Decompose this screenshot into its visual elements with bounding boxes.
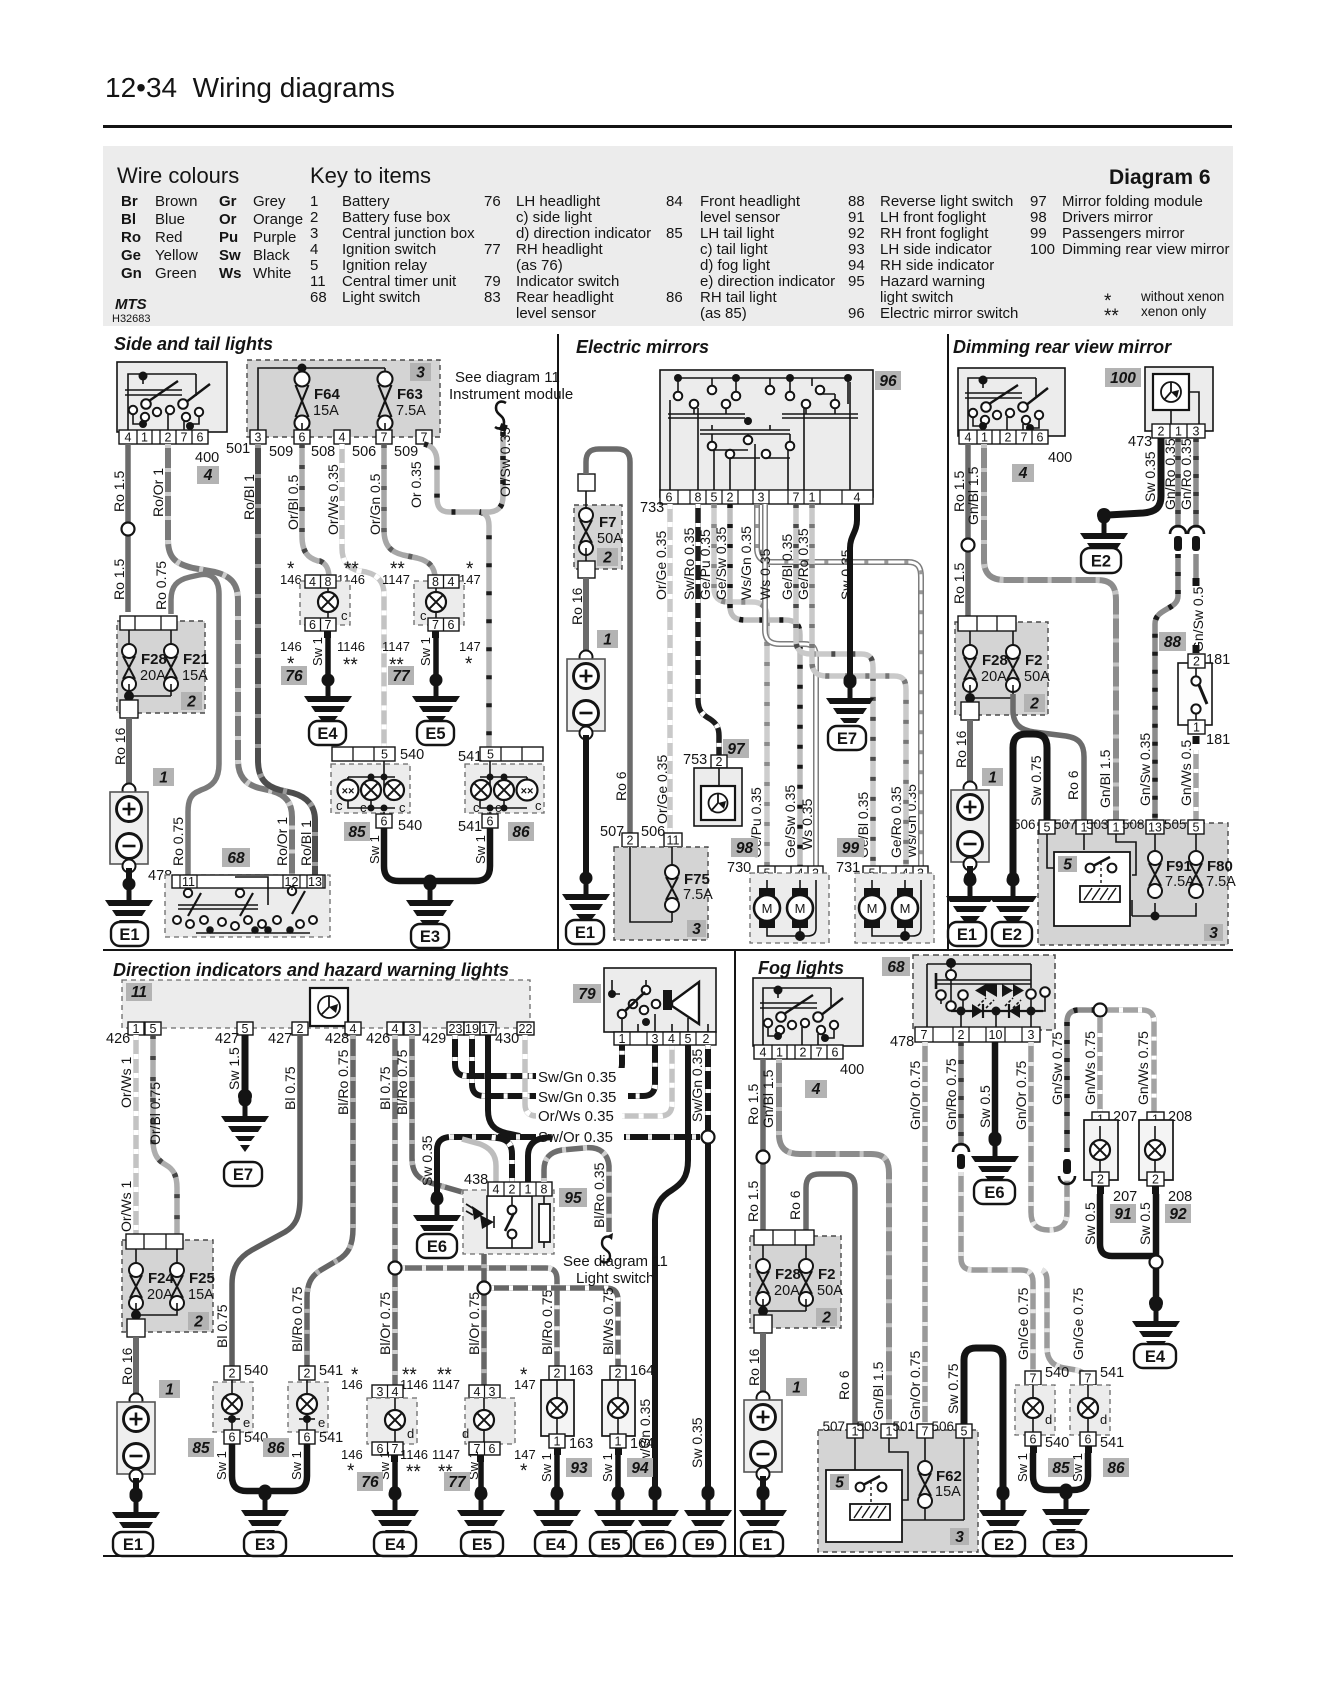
wire Sw/Gn 0.35 indicator pin 5 to ground E6 (655, 1045, 688, 1490)
svg-text:F2: F2 (818, 1266, 836, 1283)
wire Ge/Pu 0.35 switch pin 5 to mirror 98 pin 5 (714, 504, 767, 866)
svg-text:2: 2 (800, 1046, 807, 1060)
svg-text:Fog lights: Fog lights (758, 958, 844, 978)
svg-text:11: 11 (667, 834, 680, 848)
ignition switch 4 connector row (fog) (754, 1045, 843, 1060)
ground symbol E5 (94) (594, 1488, 642, 1547)
svg-text:Ro 6: Ro 6 (1065, 770, 1081, 800)
svg-text:Gn/Bl 1.5: Gn/Bl 1.5 (870, 1361, 886, 1420)
svg-text:E2: E2 (994, 1536, 1014, 1554)
svg-text:Key to items: Key to items (310, 163, 431, 188)
wire Gn/Ws 0.5 reverse switch to relay pin 5 (1193, 736, 1200, 744)
svg-text:100: 100 (1110, 370, 1136, 387)
svg-text:Purple: Purple (253, 229, 296, 246)
rear fog lamp 86d pin 6 (1080, 1432, 1096, 1446)
lamp 77 (side light c) (435, 588, 437, 618)
wire Bl/Ro 0.75 timer pin 4 to lamp 86e (307, 1035, 353, 1366)
wire Or/Bl 0.75 timer pin 5 to fuse box (153, 1035, 177, 1236)
fuse F64 15A (295, 372, 310, 431)
lamp 77 lower terminal stub (432, 631, 439, 638)
light switch 68 box (165, 875, 330, 937)
svg-text:F62: F62 (936, 1468, 962, 1485)
inline connector on pin 2 wire (953, 1144, 969, 1169)
rear fog lamp 86d box (1070, 1385, 1110, 1435)
svg-text:e) direction indicator: e) direction indicator (700, 273, 835, 290)
wire Ro 16 (dimming) (967, 720, 973, 786)
svg-text:Bl 0.75: Bl 0.75 (377, 1066, 393, 1110)
wire Gn/Ws 0.75 junction to foglamp 91 (1097, 1014, 1103, 1114)
svg-text:15A: 15A (182, 668, 208, 684)
ground symbol E6 (fog) (971, 1134, 1019, 1193)
svg-text:3: 3 (955, 1529, 964, 1546)
wire battery to ground (583, 735, 589, 878)
battery fuse box 2 (fog) (750, 1230, 841, 1328)
svg-text:Sw 0.75: Sw 0.75 (1028, 755, 1044, 806)
svg-text:76: 76 (285, 668, 303, 685)
wire Ro 16 (dir. ind.) (133, 1337, 139, 1398)
svg-text:Or/Bl 0.5: Or/Bl 0.5 (285, 475, 301, 530)
side indicator 94 connector 2 (610, 1366, 626, 1380)
svg-text:Passengers mirror: Passengers mirror (1062, 225, 1185, 242)
wire Bl/Ws 0.75 branch junction to side indicator 94 (484, 1288, 618, 1366)
svg-text:426: 426 (366, 1031, 390, 1047)
svg-text:7: 7 (793, 491, 800, 505)
fuse F7 50A (579, 508, 593, 555)
svg-text:100: 100 (1030, 241, 1055, 258)
svg-text:5: 5 (1044, 821, 1051, 835)
svg-text:E7: E7 (233, 1166, 253, 1184)
svg-text:Gn/Ro 0.35: Gn/Ro 0.35 (1178, 438, 1194, 510)
svg-text:88: 88 (848, 193, 865, 210)
svg-text:Bl: Bl (121, 211, 136, 228)
ground symbol E4 (foglights) (1132, 1299, 1180, 1358)
inline connector on foglamp feed (1059, 1159, 1075, 1184)
tail light 85 pin 6 (376, 814, 392, 828)
battery 1 (side/tail) (110, 784, 148, 873)
svg-text:1: 1 (165, 1382, 174, 1399)
svg-text:Sw: Sw (219, 247, 241, 264)
svg-text:Ge/Sw 0.35: Ge/Sw 0.35 (713, 527, 729, 600)
ground symbol E4 (76d) (371, 1488, 419, 1547)
svg-text:429: 429 (422, 1031, 446, 1047)
headlight 76d box (367, 1398, 417, 1444)
svg-text:6: 6 (381, 815, 388, 829)
badge 100 (1105, 368, 1141, 387)
svg-text:5: 5 (150, 1022, 157, 1036)
battery fuse box 2 (side/tail) (117, 616, 205, 713)
svg-text:E1: E1 (119, 926, 139, 944)
junction connector on 77d wire (478, 1282, 491, 1295)
tail light 86 connector row (480, 747, 543, 761)
svg-text:6: 6 (197, 431, 204, 445)
svg-text:Ge/Bl 0.35: Ge/Bl 0.35 (779, 534, 795, 600)
fog switch 68 connector row 7 2 10 3 (915, 1027, 1040, 1042)
svg-text:M: M (867, 901, 878, 916)
hazard switch contact (511, 1196, 513, 1248)
svg-text:86: 86 (1107, 1460, 1125, 1477)
svg-text:1146: 1146 (400, 1377, 428, 1392)
svg-text:97: 97 (727, 741, 746, 758)
svg-text:7: 7 (432, 618, 439, 632)
wire Gn/Ws 0.75 header to foglamp 92 (1100, 1010, 1154, 1114)
side indicator 94 pin 1 (610, 1434, 626, 1448)
badge 92 (1165, 1204, 1191, 1223)
mirror 98 motor wiring (767, 880, 816, 936)
badge 94 (627, 1458, 653, 1477)
svg-text:E2: E2 (1002, 926, 1022, 944)
svg-text:d: d (407, 1426, 414, 1441)
header rule (103, 125, 1232, 128)
svg-text:RH headlight: RH headlight (516, 241, 604, 258)
ground symbol E1 (dimming) (946, 874, 994, 933)
svg-text:E6: E6 (984, 1184, 1004, 1202)
section divider vertical between electric mirrors and dimming mirror (947, 334, 949, 950)
svg-text:e: e (318, 1415, 325, 1430)
legend: colour abbreviation table (121, 193, 303, 282)
headlight 77 connector 7 6 (428, 618, 459, 631)
svg-text:98: 98 (736, 840, 754, 857)
ground label E1 (566, 920, 604, 944)
svg-text:Ro 16: Ro 16 (953, 730, 969, 768)
svg-text:*: * (465, 654, 473, 675)
svg-text:7.5A: 7.5A (683, 887, 713, 903)
svg-text:See diagram 11: See diagram 11 (563, 1253, 668, 1270)
svg-text:light switch: light switch (880, 289, 953, 306)
fuse box 2 (F7) upper terminal (578, 474, 595, 491)
svg-text:c: c (473, 800, 480, 815)
svg-text:147: 147 (459, 639, 481, 654)
svg-text:2: 2 (554, 1367, 561, 1381)
wire Or/Sw 0.35 from instrument module (480, 432, 503, 512)
svg-text:76: 76 (361, 1474, 379, 1491)
lamp 86e (direction indicator e) (297, 1394, 317, 1414)
svg-text:94: 94 (631, 1460, 649, 1477)
svg-text:Gn/Or 0.75: Gn/Or 0.75 (1013, 1061, 1029, 1130)
junction connector foglamp header (1094, 1004, 1107, 1017)
svg-text:d: d (1100, 1412, 1107, 1427)
svg-text:12•34 Wiring diagrams: 12•34 Wiring diagrams (105, 72, 395, 103)
wire Sw 1 lamp 85d to ground E3 (1033, 1453, 1066, 1490)
svg-text:507: 507 (822, 1419, 845, 1434)
svg-text:Sw 0.75: Sw 0.75 (945, 1363, 961, 1414)
badge 98 (731, 838, 758, 857)
wire Sw 0.5 foglight 92 to ground E4 (1153, 1194, 1160, 1300)
svg-text:540: 540 (244, 1363, 268, 1379)
fuse F28 20A (side/tail) (122, 644, 136, 691)
hazard switch 95 pins 4 2 1 8 (488, 1182, 552, 1197)
svg-text:4: 4 (474, 1385, 481, 1399)
svg-text:509: 509 (269, 444, 293, 460)
svg-text:20A: 20A (140, 668, 166, 684)
lamp 93 (547, 1398, 567, 1418)
svg-text:Or/Bl 0.75: Or/Bl 0.75 (147, 1082, 163, 1145)
svg-text:Sw/Gn 0.35: Sw/Gn 0.35 (689, 1049, 705, 1122)
wire Gn/Or 0.75 fog switch pin 3 U-turn up to foglamps feed (1031, 1042, 1067, 1230)
svg-text:Gn: Gn (121, 265, 142, 282)
svg-text:Ignition relay: Ignition relay (342, 257, 428, 274)
ignition switch 4 box (fog) (753, 978, 863, 1046)
svg-text:1: 1 (809, 491, 816, 505)
badge 99 (837, 838, 864, 857)
svg-text:Or/Ws 0.35: Or/Ws 0.35 (325, 464, 341, 535)
dimming rear view mirror 100 box (1145, 367, 1213, 431)
wire Gn/Ro 0.35 mirror 100 pin 3 (1193, 438, 1199, 528)
badge 1 (dir. ind. battery) (159, 1380, 180, 1398)
tail lamp 85e connector 2 (224, 1366, 240, 1380)
wire Ge/Bl 0.35 switch pin 7 to mirror 99 pin 5 (796, 504, 873, 866)
ground label E4 (93) (535, 1532, 576, 1556)
fuse box 2 output dot and pin (dimming) (965, 693, 975, 703)
badge 3 (410, 363, 431, 381)
svg-text:Gn/Ro 0.35: Gn/Ro 0.35 (1162, 438, 1178, 510)
svg-text:541: 541 (1100, 1435, 1124, 1451)
svg-text:91: 91 (1114, 1206, 1131, 1223)
lamp 76 (side light c) (327, 588, 329, 618)
svg-text:Or/Gn 0.5: Or/Gn 0.5 (367, 473, 383, 535)
foglight 91 box (1084, 1120, 1118, 1180)
side indicator 94 box (602, 1380, 635, 1436)
svg-text:1147: 1147 (432, 1447, 460, 1462)
svg-text:6: 6 (304, 1431, 311, 1445)
headlight 77d box (465, 1398, 515, 1444)
wire Ro 1.5 (dimming) (965, 444, 971, 616)
svg-text:147: 147 (514, 1377, 536, 1392)
ground label E3 (fog) (1044, 1532, 1086, 1556)
lamp 91 (1090, 1140, 1110, 1160)
svg-text:68: 68 (227, 850, 245, 867)
svg-text:Ro 0.75: Ro 0.75 (153, 561, 169, 610)
ground symbol E4 (lamp 76) (304, 674, 352, 733)
svg-text:7.5A: 7.5A (396, 403, 426, 419)
wire Gn/Ro 0.75 fog switch pin 2 to rear fog lamp 85d (958, 1042, 964, 1146)
svg-text:94: 94 (848, 257, 865, 274)
fuse F28 20A (dimming) (963, 645, 977, 692)
svg-text:50A: 50A (1024, 669, 1050, 685)
svg-text:93: 93 (570, 1460, 588, 1477)
wire Ws/Gn 0.35 switch pin 3 to mirror 99 pin 2 (757, 504, 921, 866)
badge 68 (222, 848, 250, 867)
ground symbol E1 (fog) (739, 1488, 787, 1547)
svg-text:F28: F28 (982, 652, 1008, 669)
svg-text:96: 96 (848, 305, 865, 322)
badge 76 (281, 666, 307, 685)
svg-text:6: 6 (229, 1431, 236, 1445)
svg-text:4: 4 (392, 1022, 399, 1036)
svg-text:Electric mirrors: Electric mirrors (576, 337, 709, 357)
svg-text:164: 164 (630, 1363, 654, 1379)
svg-text:20A: 20A (981, 669, 1007, 685)
wire battery to ground E1 (dimming) (967, 866, 973, 878)
relay box 3 internal wiring (1047, 834, 1196, 916)
ground symbol E1 (dir. ind.) (112, 1490, 160, 1549)
svg-text:Or/Ws 0.35: Or/Ws 0.35 (538, 1108, 614, 1125)
svg-text:H32683: H32683 (112, 313, 151, 325)
svg-text:Ro 1.5: Ro 1.5 (111, 559, 127, 600)
rear fog lamp 86d pin 7 (1080, 1371, 1096, 1385)
svg-text:2: 2 (1158, 425, 1165, 439)
svg-text:2: 2 (627, 834, 634, 848)
svg-text:*: * (347, 1461, 355, 1482)
wire Ro 16 to battery (126, 718, 132, 786)
svg-text:147: 147 (514, 1447, 536, 1462)
svg-text:(as 76): (as 76) (516, 257, 563, 274)
wire Ro 0.75 from fuse box to light switch (171, 574, 219, 875)
svg-text:427: 427 (215, 1031, 239, 1047)
svg-text:146: 146 (341, 1377, 363, 1392)
svg-text:7.5A: 7.5A (1206, 874, 1236, 890)
tail light 86 lamp box (465, 764, 544, 813)
wire Bl/Ro 0.75 branch junction to side indicator 93 (395, 1268, 557, 1366)
badge 2 (181, 692, 202, 710)
svg-text:99: 99 (1030, 225, 1047, 242)
fuse box 2 (F7) dashed box (574, 505, 622, 569)
svg-text:96: 96 (879, 373, 897, 390)
svg-text:Ge/Ro 0.35: Ge/Ro 0.35 (795, 528, 811, 600)
tail lamp 86e connector 2 (299, 1366, 315, 1380)
legend: key column 2 (484, 193, 651, 322)
svg-text:1: 1 (1113, 821, 1120, 835)
timer 11 icon (310, 988, 348, 1026)
ground symbol E3 (tail lights) (406, 878, 454, 937)
svg-text:Ro 1.5: Ro 1.5 (951, 563, 967, 604)
svg-text:E3: E3 (1055, 1536, 1075, 1554)
svg-text:See diagram 11: See diagram 11 (455, 369, 560, 386)
svg-text:Gn/Ge 0.75: Gn/Ge 0.75 (1015, 1287, 1031, 1360)
svg-text:Ge: Ge (121, 247, 141, 264)
junction dot and output pin of fuse box 2 (124, 691, 134, 701)
lamp 94 (608, 1398, 628, 1418)
tail light 86 pin 6 (482, 814, 498, 828)
svg-text:6: 6 (1030, 1433, 1037, 1447)
badge 68 (fog) (882, 957, 910, 976)
svg-text:505: 505 (1164, 817, 1187, 832)
svg-text:10: 10 (989, 1028, 1003, 1042)
ground symbol E5 (lamp 77) (412, 674, 460, 733)
wire Bl/Ro 0.35 hazard pin 8 (544, 1148, 609, 1232)
wire Sw 0.35 mirror 100 pin 2 to ground E2 (1108, 438, 1161, 515)
svg-text:733: 733 (640, 500, 664, 516)
svg-text:Sw/Gn 0.35: Sw/Gn 0.35 (538, 1069, 616, 1086)
indicator switch 79 box (604, 968, 716, 1032)
badge 1 (dimming battery) (982, 768, 1003, 786)
ground label E1 (113, 1532, 153, 1556)
wire Sw 1 lamp 94 to ground E5 (615, 1455, 621, 1490)
svg-text:1: 1 (792, 1380, 801, 1397)
svg-text:Ws/Gn 0.35: Ws/Gn 0.35 (738, 526, 754, 600)
junction dot fog rear lamps ground (1060, 1484, 1073, 1497)
svg-text:Gn/Or 0.75: Gn/Or 0.75 (907, 1061, 923, 1130)
module supply box 3 (F75) (614, 847, 708, 940)
wire Sw 1 lamp 76d to ground E4 (392, 1462, 398, 1490)
svg-text:506: 506 (352, 444, 376, 460)
motor M2 (98) (792, 888, 808, 897)
svg-text:E1: E1 (957, 926, 977, 944)
svg-text:13: 13 (1148, 821, 1162, 835)
relay box 3 (dimming) (1038, 823, 1228, 945)
ignition switch 4 connector row (dimming) (959, 430, 1048, 445)
svg-text:Red: Red (155, 229, 183, 246)
svg-text:Gn/Sw 0.75: Gn/Sw 0.75 (1049, 1032, 1065, 1105)
reverse light switch 88 box (1178, 663, 1212, 725)
fuse box 2 (F7) lower terminal (578, 561, 595, 578)
wire Sw 0.5 fog switch pin 10 to ground E6 (992, 1042, 999, 1136)
svg-text:MTS: MTS (115, 296, 147, 313)
tail light 86 internal bus (480, 761, 527, 818)
inline connector (pin3 wire) (1188, 526, 1204, 551)
svg-text:8: 8 (541, 1183, 548, 1197)
svg-text:Bl/Ro 0.35: Bl/Ro 0.35 (591, 1162, 607, 1228)
svg-text:1: 1 (603, 632, 612, 649)
svg-text:Dimming rear view mirror: Dimming rear view mirror (953, 337, 1172, 357)
fuse F2 50A (dimming) (1006, 645, 1020, 692)
ground symbol E4 (93) (533, 1488, 581, 1547)
svg-text:4: 4 (339, 431, 346, 445)
tail lamp 86e pin 6 (299, 1430, 315, 1444)
badge 3 (F75 box) (687, 920, 706, 937)
svg-text:207: 207 (1113, 1189, 1137, 1205)
wire Bl 0.75 timer pin 2 to lamp 85e (232, 1035, 300, 1366)
svg-text:7: 7 (181, 431, 188, 445)
ground label E6 (634, 1532, 675, 1556)
svg-text:Indicator switch: Indicator switch (516, 273, 619, 290)
svg-text:Bl/Or 0.75: Bl/Or 0.75 (466, 1292, 482, 1355)
svg-text:1: 1 (525, 1183, 532, 1197)
lamp 76d (direction indicator d) (385, 1410, 405, 1430)
rear fog lamp 85d pin 7 (1025, 1371, 1041, 1385)
svg-text:438: 438 (464, 1172, 488, 1188)
ground label E3 (411, 924, 449, 948)
ground label E4 (309, 721, 346, 745)
svg-text:Gn/Bl 1.5: Gn/Bl 1.5 (1097, 749, 1113, 808)
lamp 76 lower terminal stub (324, 631, 331, 638)
ground label E5 (94) (590, 1532, 631, 1556)
svg-text:541: 541 (319, 1363, 343, 1379)
svg-text:c: c (495, 800, 502, 815)
ignition switch 4 box (dimming) (958, 368, 1065, 436)
wire Ro/Or 1 from ignition pin 2 (168, 444, 292, 875)
svg-text:Gn/Ws 0.75: Gn/Ws 0.75 (1082, 1031, 1098, 1105)
svg-text:1: 1 (776, 1046, 783, 1060)
svg-text:**: ** (406, 1462, 421, 1483)
svg-text:509: 509 (394, 444, 418, 460)
battery 1 (fog) (744, 1392, 782, 1481)
ground label E4 (374, 1532, 416, 1556)
svg-text:146: 146 (280, 572, 302, 587)
junction connector foglight grounds (1150, 1256, 1163, 1269)
svg-text:Sw 0.35: Sw 0.35 (689, 1417, 705, 1468)
svg-text:Ro 1.5: Ro 1.5 (745, 1084, 761, 1125)
svg-text:7: 7 (1085, 1372, 1092, 1386)
svg-text:208: 208 (1168, 1189, 1192, 1205)
svg-text:Gn/Bl 1.5: Gn/Bl 1.5 (760, 1069, 776, 1128)
svg-text:e: e (243, 1415, 250, 1430)
svg-text:Ro/Or 1: Ro/Or 1 (150, 468, 166, 517)
headlight 77 lamp box (414, 581, 464, 625)
rear fog lamp 85d pin 6 (1025, 1432, 1041, 1446)
ground symbol E5 (77d) (457, 1488, 505, 1547)
wire Sw 1 lamp 77d to ground E5 (478, 1462, 484, 1490)
svg-text:50A: 50A (597, 531, 623, 547)
svg-text:F64: F64 (314, 386, 341, 403)
svg-text:Ge/Sw 0.35: Ge/Sw 0.35 (782, 785, 798, 858)
svg-text:1: 1 (886, 1425, 893, 1439)
svg-text:Hazard warning: Hazard warning (880, 273, 985, 290)
svg-text:85: 85 (348, 824, 366, 841)
svg-text:5: 5 (1063, 857, 1072, 874)
svg-text:2: 2 (958, 1028, 965, 1042)
svg-text:E9: E9 (694, 1536, 714, 1554)
svg-text:753: 753 (683, 752, 707, 768)
